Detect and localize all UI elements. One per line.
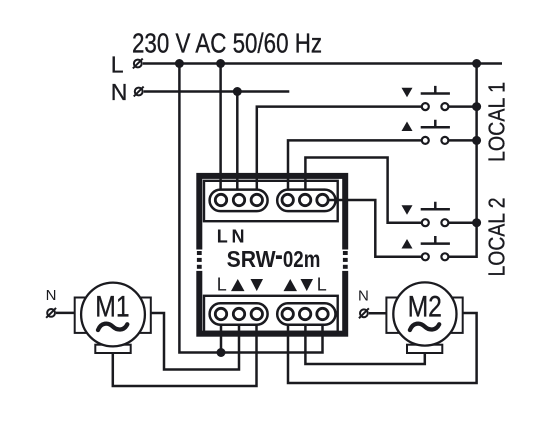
terminal block bottom-right (motor M2 out) [277, 303, 335, 324]
svg-text:N: N [46, 287, 57, 304]
pin label up arrow M2 [284, 279, 298, 291]
svg-text:L: L [111, 51, 124, 77]
wire L feed to bottom L terminals [179, 64, 322, 353]
terminal block top-left (L N in) [210, 190, 268, 212]
svg-text:SRW: SRW [227, 246, 277, 272]
terminal 7 bottom L1 [215, 308, 226, 319]
pin label down arrow M1 [251, 279, 264, 291]
wire switch S3 to bus [449, 221, 477, 224]
wire motor M2 neutral [369, 312, 387, 315]
wire N line [144, 90, 290, 93]
svg-text:N: N [358, 287, 369, 304]
wire top terminal 4 to switch S2 [288, 140, 421, 193]
wire switch S2 to bus [449, 139, 477, 142]
terminal 5 top [299, 194, 310, 205]
wire bottom terminal 4 to motor M2 up winding [288, 313, 477, 383]
switch S1 LOCAL1 down [402, 86, 450, 110]
device case DIN clip gap left [196, 250, 203, 271]
terminal 11 bottom down2 [299, 308, 310, 319]
terminal screw L mains [133, 59, 143, 69]
terminal screw N motor M2 [359, 308, 369, 318]
svg-text:LOCAL 1: LOCAL 1 [484, 82, 510, 162]
terminal 9 bottom down1 [251, 308, 262, 319]
terminal 3 top [251, 194, 262, 205]
svg-text:02m: 02m [283, 246, 321, 272]
pin label down arrow M2 [301, 279, 314, 291]
svg-text:N: N [111, 79, 128, 105]
terminal screw N motor M1 [46, 308, 56, 318]
junction L feed [217, 348, 226, 357]
wire L to top terminal 1 [219, 64, 222, 194]
wire L line [143, 62, 502, 65]
svg-text:LOCAL 2: LOCAL 2 [484, 198, 510, 277]
wire top terminal 6 to switch S4 [329, 200, 422, 257]
junction bus S3 [472, 218, 481, 227]
svg-text:L: L [217, 274, 227, 294]
junction L line terminal 1 [216, 59, 225, 68]
switch S2 LOCAL1 up [402, 120, 450, 144]
svg-text:230 V AC 50/60 Hz: 230 V AC 50/60 Hz [132, 27, 322, 58]
terminal block top-right (control in) [277, 190, 335, 212]
wire top terminal 3 to switch S1 [257, 107, 421, 194]
wire bottom terminal 1 to L feed [220, 321, 223, 353]
wire switch S1 to bus [449, 105, 477, 108]
device model label SRW-02m [227, 246, 321, 272]
switch S4 LOCAL2 up [402, 236, 450, 260]
switch S3 LOCAL2 down [402, 202, 450, 227]
svg-text:M2: M2 [408, 290, 442, 323]
junction bus S1 [472, 102, 481, 111]
junction L line left [175, 59, 184, 68]
wire N to top terminal 2 [236, 92, 239, 194]
motor M1 [75, 283, 151, 353]
junction N line [233, 87, 242, 96]
terminal 2 N top [233, 194, 244, 205]
wire switch bus vertical [449, 64, 477, 257]
terminal 1 L top [215, 194, 226, 205]
terminal 10 bottom up2 [282, 308, 293, 319]
terminal 12 bottom L2 [317, 308, 328, 319]
wire terminal 6 exit segment [329, 199, 339, 202]
terminal 8 bottom up1 [233, 308, 244, 319]
svg-text:L: L [217, 226, 228, 246]
motor M2 [386, 282, 462, 353]
device case DIN clip gap right [342, 250, 349, 271]
device DIN clip dots left [197, 251, 202, 269]
device SRW-02m outer case [199, 176, 345, 334]
junction bus S2 [472, 136, 481, 145]
wire motor M1 neutral [56, 312, 75, 315]
wire bottom terminal 5 to motor M2 down winding [305, 321, 424, 365]
junction L line bus [472, 59, 481, 68]
wire bottom terminal 2 to motor M1 up winding [151, 313, 239, 370]
device top terminal compartment [204, 181, 338, 221]
wire top terminal 5 to switch S3 [305, 158, 421, 223]
svg-text:M1: M1 [95, 290, 129, 323]
device bottom terminal compartment [204, 296, 338, 332]
svg-text:N: N [232, 226, 245, 246]
terminal screw N mains [134, 87, 144, 97]
terminal 4 top [282, 194, 293, 205]
device DIN clip dots right [343, 251, 348, 269]
svg-text:L: L [317, 274, 327, 294]
terminal block bottom-left (motor M1 out) [210, 303, 268, 324]
pin label up arrow M1 [231, 279, 245, 291]
terminal 6 top [317, 194, 328, 205]
wire bottom terminal 3 to motor M1 down winding [113, 321, 257, 387]
